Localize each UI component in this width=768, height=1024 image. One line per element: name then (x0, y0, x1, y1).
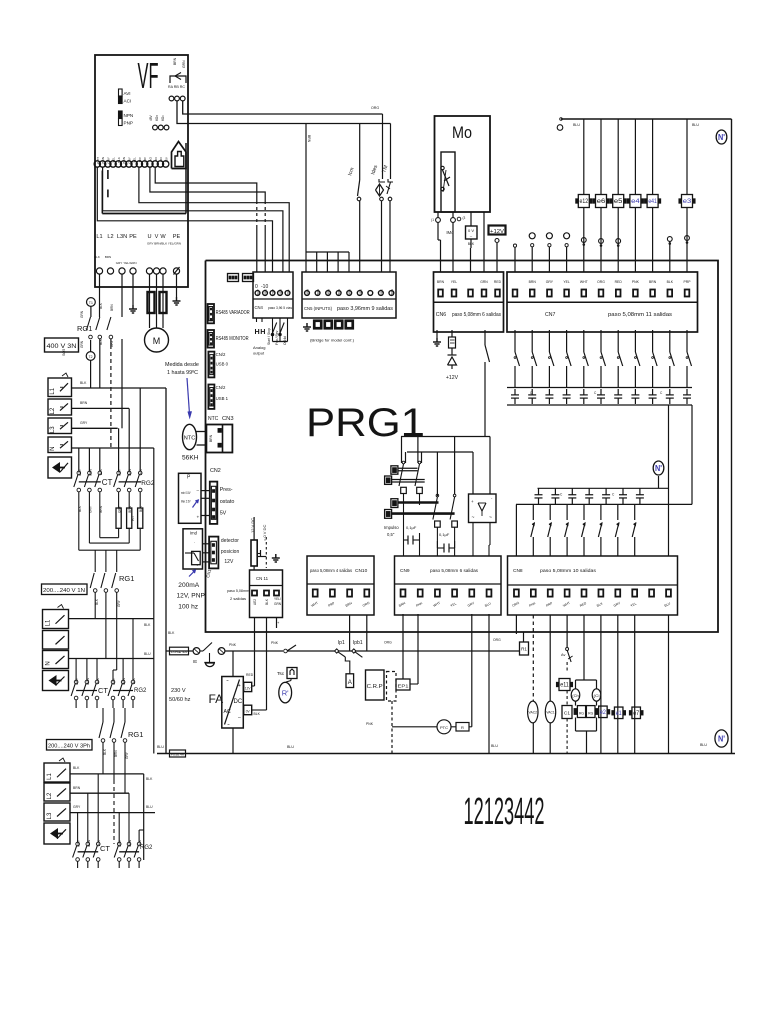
svg-text:+: + (238, 683, 241, 689)
svg-text:L2: L2 (47, 792, 53, 799)
svg-text:ORG: ORG (597, 280, 605, 284)
svg-text:RED: RED (615, 280, 623, 284)
svg-text:T2: T2 (89, 355, 93, 359)
svg-text:BLK: BLK (254, 712, 261, 716)
svg-text:12V, PNP: 12V, PNP (177, 593, 206, 600)
svg-text:56KH: 56KH (182, 455, 199, 462)
svg-text:N: N (46, 661, 52, 665)
svg-text:+12V: +12V (490, 229, 504, 235)
svg-text:10V: 10V (164, 156, 168, 162)
svg-text:V: V (155, 234, 159, 240)
svg-text:RED: RED (279, 288, 283, 295)
svg-text:C1: C1 (564, 711, 570, 717)
svg-text:RG1: RG1 (128, 730, 143, 739)
svg-text:posicion: posicion (221, 549, 240, 555)
svg-text:BLK: BLK (146, 777, 153, 781)
svg-text:R': R' (282, 689, 289, 698)
svg-text:200....240 V 3Ph: 200....240 V 3Ph (48, 744, 90, 750)
svg-text:ORG: ORG (493, 638, 501, 642)
svg-text:GRY: GRY (116, 261, 122, 265)
svg-text:+12V: +12V (446, 375, 459, 381)
svg-text:50/60 hz: 50/60 hz (169, 697, 191, 703)
svg-text:(Ch: (Ch (572, 694, 579, 698)
svg-text:L2: L2 (50, 407, 56, 414)
svg-text:L1: L1 (47, 773, 53, 780)
svg-text:RG: RG (588, 711, 593, 715)
svg-text:BLK: BLK (265, 598, 269, 605)
svg-text:BLK: BLK (80, 381, 87, 385)
svg-text:BRN: BRN (114, 750, 118, 757)
svg-text:230 V: 230 V (171, 688, 186, 694)
svg-text:CT: CT (102, 478, 113, 487)
svg-text:PE: PE (129, 234, 137, 240)
svg-text:ORG: ORG (384, 641, 392, 645)
svg-text:Mo: Mo (452, 123, 472, 142)
svg-text:e11: e11 (560, 683, 569, 689)
svg-text:CN6: CN6 (436, 312, 446, 318)
svg-text:e2: e2 (600, 710, 607, 716)
svg-text:HH: HH (255, 327, 267, 336)
svg-text:CT: CT (98, 686, 108, 695)
svg-text:RG2: RG2 (134, 688, 147, 694)
svg-text:200mA: 200mA (178, 582, 199, 589)
svg-text:e5: e5 (614, 199, 623, 205)
svg-text:e3: e3 (683, 199, 692, 205)
svg-text:min 0.5V: min 0.5V (181, 490, 191, 495)
svg-text:L1: L1 (50, 387, 56, 394)
svg-text:PRP: PRP (684, 280, 692, 284)
svg-text:YEL: YEL (563, 280, 570, 284)
svg-text:L3N: L3N (117, 234, 127, 240)
svg-text:BRN: BRN (73, 786, 81, 790)
svg-text:C.R.P: C.R.P (367, 684, 383, 690)
svg-text:NTC: NTC (184, 436, 196, 442)
svg-text:GRY: GRY (118, 839, 122, 847)
svg-text:N': N' (718, 133, 725, 142)
svg-text:BRN: BRN (122, 677, 126, 684)
svg-text:CN3: CN3 (222, 416, 234, 422)
svg-text:BLU: BLU (692, 123, 699, 127)
svg-text:12V: 12V (245, 687, 252, 691)
svg-text:GRY: GRY (73, 805, 81, 809)
svg-text:T1: T1 (89, 301, 93, 305)
svg-text:FUSE 4A: FUSE 4A (171, 753, 184, 757)
svg-text:+: + (471, 499, 474, 504)
svg-text:BLK: BLK (117, 156, 121, 163)
svg-text:GRY: GRY (118, 468, 122, 476)
svg-text:PNK: PNK (271, 641, 279, 645)
svg-text:BRN: BRN (80, 401, 88, 405)
svg-text:BRN: BRN (327, 289, 331, 295)
svg-text:DC: DC (234, 699, 243, 705)
svg-text:Impulso: Impulso (384, 525, 399, 530)
svg-text:BRN: BRN (390, 289, 394, 295)
svg-text:Av: Av (561, 653, 565, 657)
svg-text:GRN: GRN (274, 602, 282, 606)
svg-text:BRN: BRN (209, 434, 213, 442)
svg-text:PRG1: PRG1 (306, 401, 425, 445)
svg-text:(Bridge for model conf.): (Bridge for model conf.) (310, 339, 355, 343)
svg-text:0: 0 (255, 284, 258, 290)
svg-text:WHT: WHT (580, 280, 588, 284)
svg-text:Medida desde: Medida desde (165, 362, 199, 368)
svg-text:e41: e41 (648, 199, 657, 205)
svg-text:ostato: ostato (220, 499, 235, 505)
svg-text:CN/2: CN/2 (216, 385, 226, 390)
svg-text:Analog: Analog (253, 345, 265, 350)
svg-text:GRN: GRN (182, 60, 186, 68)
svg-text:AVI: AVI (154, 157, 158, 162)
svg-text:RS485 VARIADOR: RS485 VARIADOR (216, 310, 250, 316)
svg-text:~: ~ (489, 515, 492, 521)
svg-text:PTC: PTC (440, 725, 448, 730)
svg-text:NTC: NTC (208, 416, 219, 422)
svg-text:PNK: PNK (366, 722, 374, 726)
svg-text:RT: RT (130, 515, 135, 521)
svg-text:paso 5,08mm 10 salidas: paso 5,08mm 10 salidas (540, 568, 597, 573)
svg-text:GRN: GRN (80, 310, 84, 318)
svg-text:WHT: WHT (96, 157, 100, 164)
svg-text:PNK: PNK (379, 289, 383, 295)
svg-text:GRY: GRY (125, 751, 129, 759)
svg-text:RG: RG (579, 711, 584, 715)
svg-text:10V: 10V (138, 156, 142, 162)
svg-text:EP1: EP1 (398, 684, 410, 689)
svg-text:M: M (153, 336, 161, 346)
svg-text:Tsc: Tsc (277, 671, 285, 677)
svg-text:BLK: BLK (94, 255, 100, 259)
svg-text:CN7: CN7 (545, 312, 555, 318)
svg-text:Ip1: Ip1 (338, 640, 345, 646)
svg-text:(1: (1 (431, 218, 434, 222)
svg-text:BLK: BLK (73, 766, 80, 770)
svg-text:PNK: PNK (229, 643, 237, 647)
svg-text:e7: e7 (633, 711, 640, 717)
svg-text:(3: (3 (463, 216, 466, 220)
svg-text:NPN: NPN (124, 113, 134, 118)
svg-text:BLK: BLK (132, 677, 136, 684)
svg-text:BRN: BRN (105, 255, 111, 259)
svg-text:GRY: GRY (546, 280, 554, 284)
svg-text:e12: e12 (580, 199, 589, 205)
svg-text:CN4: CN4 (255, 305, 264, 310)
svg-text:GRY: GRY (80, 421, 88, 425)
svg-text:BRN: BRN (101, 157, 105, 164)
svg-text:FA: FA (209, 692, 224, 706)
svg-text:BLU: BLU (144, 652, 151, 656)
svg-text:BRN: BRN (316, 289, 320, 295)
svg-text:0,1µF: 0,1µF (439, 532, 450, 537)
svg-text:RED: RED (358, 288, 362, 295)
svg-text:Ipb1: Ipb1 (353, 640, 363, 646)
svg-text:1 hasta 99ºC: 1 hasta 99ºC (167, 370, 198, 376)
svg-text:48V: 48V (149, 114, 153, 121)
svg-text:6Oc: 6Oc (161, 115, 165, 121)
svg-text:CT: CT (100, 844, 110, 853)
svg-text:paso 5,08mm 4 salidas: paso 5,08mm 4 salidas (310, 568, 353, 573)
svg-text:GRY: GRY (112, 677, 116, 685)
svg-text:Pres-: Pres- (220, 487, 233, 493)
svg-text:VAC2: VAC2 (529, 711, 538, 715)
svg-text:RG1: RG1 (77, 324, 92, 333)
svg-text:~: ~ (472, 515, 475, 521)
svg-text:GRY: GRY (106, 157, 110, 164)
svg-text:BLU: BLU (146, 805, 153, 809)
svg-text:RED: RED (494, 280, 502, 284)
svg-text:-10: -10 (261, 284, 268, 290)
svg-text:U: U (147, 234, 151, 240)
svg-text:BRN: BRN (306, 289, 310, 295)
svg-text:e4: e4 (631, 199, 640, 205)
svg-text:OO4d: OO4d (283, 336, 287, 345)
svg-text:BRN: BRN (307, 135, 311, 143)
svg-text:GRY: GRY (77, 839, 81, 847)
svg-text:24V: 24V (143, 156, 147, 162)
svg-text:5V: 5V (220, 511, 227, 517)
svg-text:BRN: BRN (86, 677, 90, 684)
svg-text:·: · (194, 540, 195, 545)
svg-text:BRN: BRN (337, 289, 341, 295)
svg-text:BRN: BRN (110, 304, 114, 311)
svg-text:CN9: CN9 (400, 568, 410, 574)
svg-text:BLK: BLK (103, 748, 107, 755)
svg-text:AE2: AE2 (253, 599, 257, 605)
svg-text:0,5": 0,5" (387, 532, 395, 537)
svg-text:detector: detector (221, 538, 239, 544)
svg-text:GRY: GRY (127, 157, 131, 164)
svg-text:BLU: BLU (573, 123, 580, 127)
svg-text:Max 2.5V: Max 2.5V (181, 499, 191, 504)
svg-text:2 salidas: 2 salidas (230, 596, 246, 601)
svg-text:GRY: GRY (78, 468, 82, 476)
svg-text:VAC1: VAC1 (546, 711, 555, 715)
svg-text:L3: L3 (50, 426, 56, 433)
svg-text:CN10: CN10 (355, 568, 368, 574)
svg-text:PRP: PRP (271, 289, 275, 295)
svg-text:+: + (197, 516, 200, 521)
svg-text:e1: e1 (616, 711, 623, 717)
svg-text:W: W (160, 234, 166, 240)
svg-text:USB 0: USB 0 (216, 362, 229, 367)
svg-text:BLU: BLU (491, 744, 498, 748)
svg-text:6Ov: 6Ov (155, 115, 159, 121)
svg-text:PE: PE (173, 234, 181, 240)
svg-text:Frw / Rev: Frw / Rev (275, 330, 279, 345)
svg-text:YEL/GRN: YEL/GRN (123, 261, 136, 265)
svg-text:YEL/: YEL/ (274, 597, 281, 601)
svg-text:12V: 12V (224, 559, 234, 565)
svg-text:paso 5,08mm 11 salidas: paso 5,08mm 11 salidas (608, 312, 672, 318)
svg-text:BRN: BRN (88, 468, 92, 475)
svg-text:VF: VF (138, 55, 159, 96)
svg-text:BLK: BLK (667, 280, 674, 284)
svg-text:Start / Stop: Start / Stop (267, 328, 271, 345)
svg-text:N': N' (718, 734, 725, 743)
svg-text:AC: AC (224, 709, 231, 715)
svg-text:ACI: ACI (124, 99, 132, 104)
svg-text:~: ~ (226, 678, 229, 683)
svg-text:RG2: RG2 (141, 480, 155, 487)
svg-text:RG2: RG2 (140, 845, 153, 851)
svg-text:~: ~ (227, 722, 230, 727)
svg-text:GRY: GRY (117, 599, 121, 607)
svg-text:GRY: GRY (75, 677, 79, 685)
svg-text:e6: e6 (597, 199, 606, 205)
svg-text:BRN: BRN (437, 280, 445, 284)
svg-text:YEL: YEL (286, 289, 290, 295)
svg-text:BRN: BRN (529, 280, 537, 284)
svg-text:CN5 (INPUTS): CN5 (INPUTS) (304, 306, 332, 311)
svg-text:output: output (253, 351, 265, 356)
svg-text:100 hz: 100 hz (178, 604, 198, 611)
svg-text:Imd: Imd (190, 531, 198, 536)
svg-text:USB 1: USB 1 (216, 396, 229, 401)
svg-text:PNP: PNP (124, 121, 133, 126)
svg-text:CN8: CN8 (513, 568, 523, 574)
svg-text:BRN: BRN (649, 280, 657, 284)
svg-text:BRN: BRN (128, 839, 132, 846)
svg-text:AVI: AVI (124, 91, 131, 96)
svg-text:FUSE 4A: FUSE 4A (171, 650, 187, 654)
svg-text:BLK: BLK (96, 677, 100, 684)
svg-text:BLK: BLK (168, 631, 175, 635)
svg-text:0,1µF: 0,1µF (406, 525, 417, 530)
svg-text:N: N (50, 447, 56, 451)
svg-text:L3: L3 (47, 812, 53, 819)
svg-text:BRN: BRN (128, 468, 132, 475)
svg-text:CN/2: CN/2 (216, 352, 226, 357)
svg-text:YEL: YEL (112, 157, 116, 163)
svg-text:BLK: BLK (144, 623, 151, 627)
svg-text:ACI: ACI (159, 157, 163, 162)
svg-text:12123442: 12123442 (464, 791, 545, 833)
svg-text:YEL: YEL (133, 157, 137, 163)
svg-text:RG1: RG1 (119, 574, 134, 583)
svg-text:BLK: BLK (99, 468, 103, 475)
svg-text:RS485 MONITOR: RS485 MONITOR (216, 336, 249, 342)
svg-text:N': N' (655, 464, 662, 473)
svg-text:BLK: BLK (139, 468, 143, 475)
svg-text:GRN: GRN (80, 340, 84, 348)
svg-text:L1: L1 (96, 234, 102, 240)
svg-text:RED: RED (246, 673, 254, 677)
svg-text:200....240 V 1N: 200....240 V 1N (43, 588, 85, 594)
svg-text:paso 5,08mm: paso 5,08mm (227, 588, 250, 593)
svg-text:BRN: BRN (173, 57, 177, 65)
svg-text:AO: AO (149, 156, 153, 161)
svg-text:L2: L2 (107, 234, 113, 240)
svg-text:BLU: BLU (287, 745, 294, 749)
svg-text:–: – (238, 715, 241, 721)
svg-text:BLU: BLU (700, 743, 707, 747)
svg-text:RA RB RC: RA RB RC (168, 85, 185, 89)
svg-text:GRY BRN/BLK YEL/GRN: GRY BRN/BLK YEL/GRN (147, 242, 181, 246)
svg-text:SQ5: SQ5 (62, 349, 66, 356)
svg-text:paso 5,08mm 6 salidas: paso 5,08mm 6 salidas (452, 312, 501, 318)
svg-text:ORG: ORG (371, 106, 379, 110)
svg-text:CN2: CN2 (210, 468, 221, 474)
svg-text:BRN: BRN (87, 839, 91, 846)
svg-text:GRN: GRN (480, 280, 488, 284)
svg-text:paso 3,96 5 vías: paso 3,96 5 vías (268, 306, 292, 310)
svg-text:YEL: YEL (451, 280, 458, 284)
svg-text:BLU: BLU (157, 745, 164, 749)
svg-text:paso 5,08mm 6 salidas: paso 5,08mm 6 salidas (430, 568, 479, 573)
svg-text:L1: L1 (46, 619, 52, 626)
svg-text:PNK: PNK (632, 280, 640, 284)
svg-text:CN 11: CN 11 (256, 576, 269, 581)
svg-text:IE: IE (193, 659, 197, 664)
svg-text:R1: R1 (521, 647, 527, 652)
svg-text:BRN: BRN (348, 289, 352, 295)
svg-text:paso 3,96mm 9 salidas: paso 3,96mm 9 salidas (337, 306, 393, 312)
svg-text:BRN: BRN (122, 157, 126, 164)
svg-text:(Cl: (Cl (594, 694, 600, 698)
svg-text:R: R (461, 725, 464, 730)
